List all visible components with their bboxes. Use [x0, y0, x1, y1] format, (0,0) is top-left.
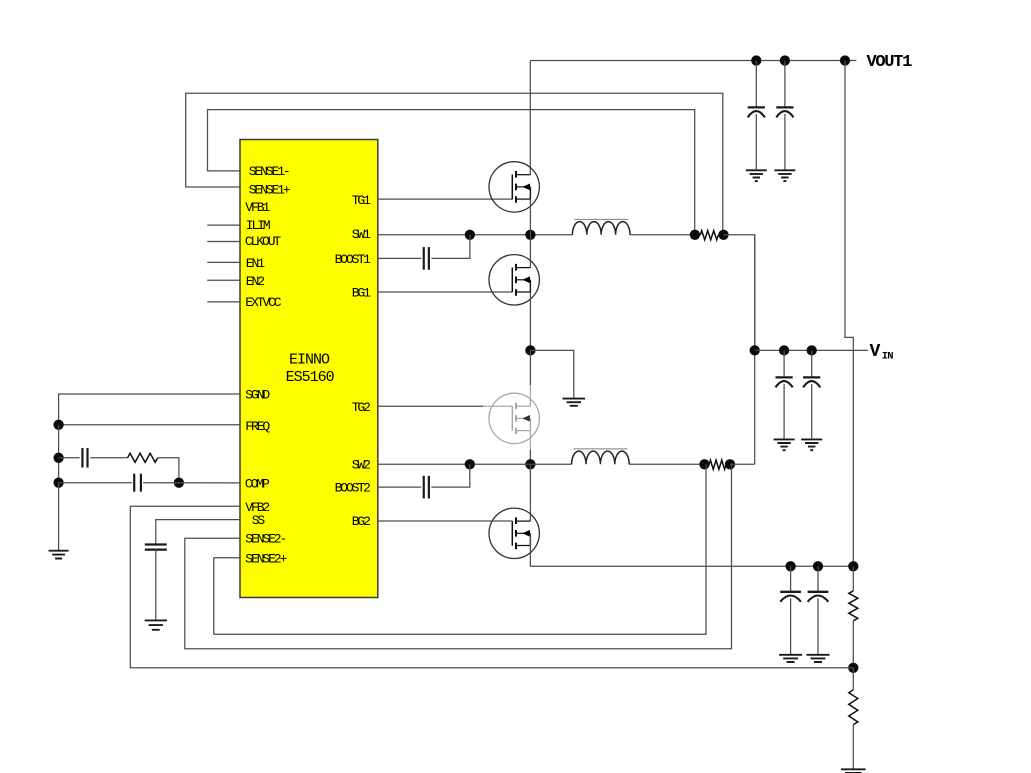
wire FREQ net: [59, 424, 240, 426]
wire SW2 net: [378, 463, 470, 465]
resistor R6 (divider bottom): [852, 668, 854, 690]
svg-text:BG2: BG2: [352, 514, 370, 529]
svg-text:SW1: SW1: [352, 227, 371, 242]
svg-text:SENSE1-: SENSE1-: [249, 164, 289, 179]
wire C9 to R3: [90, 457, 127, 459]
node mid rail ground junction: [525, 345, 535, 355]
wire SS net: [156, 520, 240, 544]
wire Rsense1 to VIN rail: [724, 235, 755, 351]
node comp branch junction: [53, 453, 63, 463]
node SW1 junction at boost cap: [465, 230, 475, 240]
wire rail to ground: [58, 483, 60, 551]
svg-text:V: V: [870, 342, 881, 362]
wire SW1 net: [378, 234, 470, 236]
svg-text:EN2: EN2: [246, 274, 264, 289]
wire VIN rail vertical: [754, 235, 756, 464]
ground under C3: [774, 439, 795, 450]
wire mid node down to Q3 drain (black part): [529, 350, 531, 385]
resistor R2 (sense): [709, 460, 726, 469]
wire VOUT1 top rail corner down to Q1 drain: [529, 61, 531, 175]
capacitor C4 (VIN): [811, 350, 813, 377]
inductor L1: [572, 222, 630, 235]
svg-text:SGND: SGND: [245, 388, 270, 403]
capacitor C3 (VIN): [783, 350, 785, 377]
ground under C8: [807, 655, 830, 662]
node SW2 junction at boost2 cap: [465, 459, 475, 469]
wire VOUT1 row: [530, 60, 856, 62]
node COMP row junction: [53, 478, 63, 488]
wire SENSE1+ net: pin to Rsense1 right: [186, 93, 723, 235]
wire to SW2 node: [529, 450, 531, 464]
inductor L2: [572, 451, 630, 464]
wire EN1 stub: [207, 261, 240, 263]
wire comp ground rail: [58, 425, 60, 483]
transistor Q1 (TG1 N-MOSFET): [489, 162, 539, 212]
wire SGND net: [59, 394, 240, 425]
node VFB2 divider junction: [848, 663, 858, 673]
ground mid rail: [563, 399, 586, 406]
svg-text:SW2: SW2: [352, 458, 370, 473]
wire boost2 cap to SW2: [431, 464, 469, 487]
wire ILIM stub: [207, 224, 240, 226]
svg-text:BG1: BG1: [352, 286, 371, 301]
svg-text:ES5160: ES5160: [286, 369, 335, 386]
wire VIN row: [755, 349, 868, 351]
node Rsense1 right: [718, 230, 728, 240]
capacitor C8 (bottom): [817, 566, 819, 591]
wire SENSE2- net: [185, 464, 732, 649]
capacitor C9 (comp series): [81, 448, 83, 468]
wire gray segment to Q3 drain: [529, 385, 531, 406]
wire BG2 gate net: [378, 520, 513, 522]
node VOUT1 output junction: [840, 55, 850, 65]
node SW2 junction at rail: [525, 459, 535, 469]
capacitor C7 (bottom): [790, 566, 792, 591]
ground under C11: [145, 620, 167, 629]
node VIN cap1 junction: [779, 345, 789, 355]
node Rsense2 right: [725, 459, 735, 469]
node Rsense1 left: [690, 230, 700, 240]
wire VFB2 net: [130, 506, 853, 668]
capacitor C11 (SS): [145, 543, 167, 545]
capacitor C5 boost1: [423, 247, 425, 270]
op-amp-controller U1 EINNO ES5160 body: [240, 140, 378, 598]
svg-text:BOOST2: BOOST2: [335, 481, 371, 496]
capacitor C1 (VOUT1): [755, 61, 757, 108]
wire BOOST2 net: [378, 486, 421, 488]
wire TG1 gate net: [378, 198, 513, 200]
ground under C7: [779, 655, 802, 662]
svg-text:VOUT1: VOUT1: [867, 53, 913, 72]
transistor Q4 (BG2 N-MOSFET): [489, 508, 539, 558]
svg-text:TG2: TG2: [352, 400, 370, 415]
transistor Q3 (TG2 N-MOSFET, grayed): [489, 393, 539, 443]
node VIN junction at rail: [750, 345, 760, 355]
node VIN cap2 junction: [807, 345, 817, 355]
node bottom rail right end: [848, 561, 858, 571]
wire Q2 source down to mid ground node: [529, 292, 531, 350]
ground under C2: [774, 170, 795, 181]
svg-text:EXTVCC: EXTVCC: [245, 295, 282, 310]
node comp join on COMP row: [174, 478, 184, 488]
node VOUT1 cap2 junction: [780, 55, 790, 65]
wire COMP row left: [59, 482, 132, 484]
wire C10 to COMP pin: [143, 482, 240, 484]
wire boost1 cap to SW1: [431, 235, 470, 259]
svg-text:BOOST1: BOOST1: [335, 252, 372, 267]
svg-text:TG1: TG1: [352, 193, 371, 208]
svg-text:SENSE2+: SENSE2+: [245, 551, 287, 566]
wire Q3 source gray segment: [529, 431, 531, 450]
wire Q4 source to bottom rail: [530, 533, 853, 566]
svg-text:COMP: COMP: [245, 476, 270, 491]
svg-text:FREQ: FREQ: [245, 419, 270, 434]
svg-text:IN: IN: [882, 351, 894, 363]
wire BOOST1 net: [378, 257, 421, 259]
capacitor C6 boost2: [423, 476, 425, 499]
wire VOUT1 right rail down with jog: [845, 61, 853, 567]
wire SENSE2+ net: [214, 464, 706, 634]
svg-text:VFB1: VFB1: [245, 200, 270, 215]
ground under C4: [801, 439, 822, 450]
resistor R3 (comp): [128, 453, 158, 462]
wire EXTVCC stub: [207, 301, 240, 303]
wire Rsense2 to VIN rail: [730, 463, 755, 465]
node Rsense2 left: [699, 459, 709, 469]
capacitor C2 (VOUT1): [784, 61, 786, 108]
svg-text:CLKOUT: CLKOUT: [245, 234, 282, 249]
svg-text:EINNO: EINNO: [289, 351, 330, 368]
ground at divider bottom: [841, 769, 866, 773]
wire mid node to ground symbol: [530, 350, 573, 398]
wire BG1 gate net: [378, 291, 513, 293]
node bottom rail cap2: [813, 561, 823, 571]
ground comp network: [49, 551, 69, 559]
transistor Q2 (BG1 N-MOSFET): [489, 255, 539, 305]
node SW1 junction at rail: [525, 230, 535, 240]
node VOUT1 cap1 junction: [751, 55, 761, 65]
wire comp upper branch left: [59, 457, 80, 459]
wire SW1 to Q2 drain: [529, 235, 531, 268]
resistor R1 (sense): [700, 231, 718, 240]
svg-text:ILIM: ILIM: [246, 218, 270, 233]
wire TG2 gate net (gray part): [483, 405, 512, 407]
wire Q1 source to SW1: [529, 199, 531, 235]
wire SW2 to Q4 drain: [529, 464, 531, 521]
wire CLKOUT stub: [207, 241, 240, 243]
wire TG2 gate net (black part): [378, 405, 483, 407]
svg-text:SENSE1+: SENSE1+: [249, 183, 291, 198]
node bottom rail cap1: [785, 561, 795, 571]
svg-text:SENSE2-: SENSE2-: [245, 532, 285, 547]
wire EN2 stub: [207, 279, 240, 281]
capacitor C10 (comp parallel): [133, 474, 135, 492]
wire R3 to corner down to COMP row: [158, 458, 179, 483]
wire SENSE1- net: pin to Rsense1 left: [208, 110, 695, 235]
node FREQ junction: [53, 420, 63, 430]
svg-text:EN1: EN1: [246, 256, 265, 271]
resistor R5 (divider top): [852, 566, 854, 591]
ground under C1: [746, 170, 767, 181]
